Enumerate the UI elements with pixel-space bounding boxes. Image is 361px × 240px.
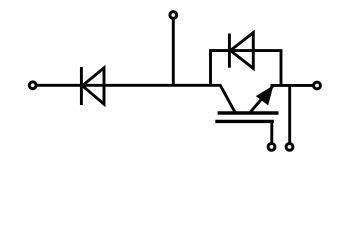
wire: top terminal down to node A [172,19,175,85]
terminal T3 (right, emitter) [314,82,321,89]
wire: freewheel loop left vertical [209,51,212,87]
transistor Q1 emitter arrow [256,85,274,105]
transistor Q1 gate bar [215,120,274,123]
wire: freewheel loop right vertical [280,51,283,87]
terminal T4 (gate, bottom left) [268,144,275,151]
wire: emitter node to right terminal [271,84,313,87]
terminal T2 (top) [170,12,177,19]
wire: gate bar down to gate terminal [270,121,273,142]
diode D2 (freewheel diode across Q1) [229,33,253,69]
transistor Q1 emitter diagonal [250,86,274,113]
wire: emitter node down to aux emitter terminal [288,85,291,142]
terminal T5 (aux emitter, bottom right) [286,144,293,151]
wire: left terminal to node A [37,84,221,87]
diode D1 (series diode, cathode toward left terminal) [81,67,104,105]
transistor Q1 body bar [218,111,279,115]
terminal T1 (left, main terminal) [29,82,36,89]
wire: freewheel loop top [209,49,282,52]
transistor Q1 (IGBT) collector diagonal [220,85,235,113]
